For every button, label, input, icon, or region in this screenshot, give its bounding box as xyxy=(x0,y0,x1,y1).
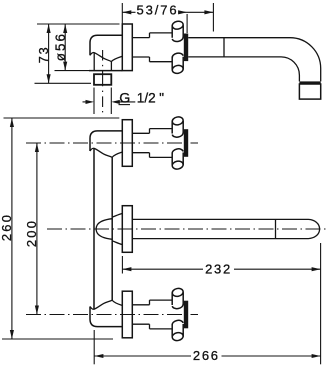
dim 53/76 extension line left (wall face) xyxy=(121,3,123,24)
threaded nipple G1/2 xyxy=(94,74,111,85)
dim 266 extension left xyxy=(93,330,95,364)
top valve centerline xyxy=(26,142,198,144)
side-view handle bottom lobe xyxy=(172,57,183,70)
valve body section A xyxy=(132,38,149,57)
dim phi56 vertical line with arrows xyxy=(64,24,66,71)
bottom valve handle top lobe xyxy=(172,292,183,305)
spout inner curve xyxy=(281,57,299,82)
arrowhead 76 right xyxy=(204,10,213,14)
dim 266 line xyxy=(94,355,320,357)
bottom valve bonnet plate xyxy=(184,301,188,329)
svg-text:": " xyxy=(159,91,164,106)
svg-text:1/2: 1/2 xyxy=(137,91,156,106)
elbow outline xyxy=(90,35,122,55)
extension line nipple bottom (y83.3) xyxy=(35,82,92,84)
svg-text:232: 232 xyxy=(205,262,232,277)
spout rounded tip xyxy=(309,219,320,238)
top valve elbow xyxy=(90,131,122,151)
spout tee cup xyxy=(96,219,112,240)
dim 73 vertical line with arrows xyxy=(48,24,50,83)
svg-text:53/76: 53/76 xyxy=(136,3,178,18)
supply pipe right xyxy=(111,157,113,300)
bottom valve flange xyxy=(122,291,132,338)
spout tee flare top xyxy=(112,213,122,217)
svg-text:ø56: ø56 xyxy=(53,32,68,61)
G dim extension lines xyxy=(94,88,111,115)
supply pipe left xyxy=(93,148,95,309)
G dim arrows xyxy=(83,101,89,103)
bottom valve body A xyxy=(132,305,149,324)
spout joint (front) xyxy=(275,219,277,238)
side-view handle top lobe xyxy=(172,25,183,38)
spout centerline xyxy=(47,228,327,230)
extension line flange bottom (y70.6) xyxy=(55,70,90,72)
wall flange (top view) xyxy=(122,24,132,71)
bottom valve elbow (mirrored) xyxy=(90,307,122,327)
top valve handle top lobe xyxy=(172,121,183,134)
spout tube (front) xyxy=(132,219,308,238)
dim 53/76 extension line right (76) xyxy=(212,3,214,32)
top valve body B xyxy=(150,129,173,158)
spout tube xyxy=(188,38,290,57)
bottom valve handle bottom lobe xyxy=(172,324,183,337)
dim 232 line xyxy=(122,268,320,270)
elbow funnel curve xyxy=(111,56,122,61)
svg-text:73: 73 xyxy=(37,46,51,64)
dim line 53/76 xyxy=(122,11,213,13)
shared right extension line xyxy=(320,243,322,364)
spout outer curve xyxy=(290,38,321,82)
elbow S-curve xyxy=(90,53,111,62)
arrowhead 53/76 left xyxy=(122,10,131,14)
top valve bonnet plate xyxy=(184,129,188,157)
elbow throat left xyxy=(93,53,95,71)
top valve body A xyxy=(132,133,149,152)
valve body section B xyxy=(150,33,173,62)
spout tee flare bottom xyxy=(112,241,122,245)
nipple centerline xyxy=(102,50,104,112)
spout flange xyxy=(122,206,132,253)
bottom valve body B xyxy=(150,300,173,329)
dim 200 line xyxy=(36,143,38,315)
svg-text:266: 266 xyxy=(193,348,220,363)
top valve flange xyxy=(122,120,132,167)
dim 53/76 extension line middle (53) xyxy=(186,14,188,33)
arrowhead 53 right xyxy=(178,10,187,14)
aerator band xyxy=(299,81,320,84)
extension line top (y24) xyxy=(37,23,120,25)
bottom valve centerline xyxy=(26,314,198,316)
dim 260 extension top xyxy=(4,117,120,119)
dim 260 line xyxy=(11,118,13,339)
dim 260 extension bottom xyxy=(2,338,113,340)
dim 232 extension left xyxy=(121,256,123,274)
elbow throat right xyxy=(110,62,112,71)
top valve handle bottom lobe xyxy=(172,153,183,166)
svg-text:260: 260 xyxy=(0,213,14,241)
svg-text:200: 200 xyxy=(24,219,39,247)
aerator cup xyxy=(299,84,320,99)
bonnet plate xyxy=(184,34,188,62)
elbow bottom face xyxy=(89,70,122,72)
spout joint xyxy=(223,38,225,57)
